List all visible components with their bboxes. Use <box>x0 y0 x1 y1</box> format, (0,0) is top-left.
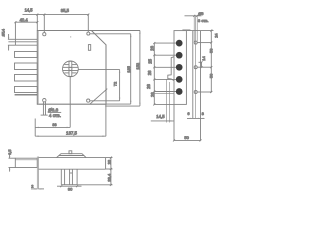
tiny mark above cylinder <box>70 36 71 37</box>
svg-text:26: 26 <box>147 70 152 75</box>
svg-text:88: 88 <box>52 123 56 127</box>
side bar hole 2 <box>194 66 197 69</box>
svg-text:14,5: 14,5 <box>25 7 34 12</box>
plate top step segment <box>182 29 190 31</box>
svg-text:26: 26 <box>150 92 155 97</box>
bolt (side view) <box>15 158 37 167</box>
body inner left edge line <box>38 31 40 105</box>
dim 72 <box>113 70 121 101</box>
dim 152 <box>135 31 141 107</box>
lower guard bolt slot <box>15 94 38 96</box>
extensions below plate <box>174 104 201 140</box>
plate bottom extension to chain <box>154 103 174 105</box>
extension line from top-right screw to 135 dim <box>90 33 131 35</box>
screw hole top-left <box>43 33 46 36</box>
screw hole top-right <box>87 32 90 35</box>
dim 14,5 / 85,5 (top) <box>23 7 90 32</box>
plate hole 1 <box>176 40 183 47</box>
svg-text:25: 25 <box>147 58 152 63</box>
svg-text:9,5: 9,5 <box>8 150 12 155</box>
dim 2 (faceplate thickness) <box>31 184 44 190</box>
svg-text:24: 24 <box>213 33 218 38</box>
plate hole 2 <box>176 52 183 59</box>
svg-text:50: 50 <box>208 48 213 53</box>
dim 6 / 8 (bar thickness) <box>187 111 205 119</box>
dim Ø6 3 отв. <box>185 11 209 42</box>
svg-text:72: 72 <box>113 81 118 86</box>
152 bottom extension <box>105 105 140 107</box>
cylinder centerline down (shared with 88 dim extension) <box>69 77 71 128</box>
side bar hole 3 <box>194 91 197 94</box>
plate hole 3 <box>176 64 183 71</box>
cylinder centerline right <box>78 68 119 70</box>
extension from bottom-right screw to 72 dim <box>90 100 120 102</box>
svg-text:14,5: 14,5 <box>156 114 165 119</box>
svg-text:26: 26 <box>149 45 154 50</box>
deadbolt 4 <box>15 87 38 93</box>
extra extension line near hole 5 <box>154 93 174 95</box>
svg-text:2: 2 <box>31 184 34 189</box>
svg-text:3 отв.: 3 отв. <box>198 18 209 23</box>
lower protrusion (bottom view) <box>61 169 77 185</box>
deadbolt 2 <box>15 63 38 70</box>
bar top extension to right chain <box>187 30 214 32</box>
svg-text:85,5: 85,5 <box>61 8 70 13</box>
svg-text:137,5: 137,5 <box>66 131 78 136</box>
svg-text:26: 26 <box>146 84 151 89</box>
latch bolt (top) <box>8 39 37 45</box>
dim 40,4 <box>14 17 38 39</box>
svg-text:6: 6 <box>187 111 190 116</box>
svg-text:14: 14 <box>201 55 206 60</box>
dim 50 (bottom of plate) <box>173 135 202 141</box>
keeper bump on plate left edge <box>168 57 174 81</box>
dim 137,5 <box>35 104 106 137</box>
plate hole 4 <box>176 76 183 83</box>
body bottom extension to 135 dim <box>106 103 131 105</box>
svg-text:152: 152 <box>135 62 140 69</box>
svg-text:8: 8 <box>202 111 205 116</box>
svg-text:30: 30 <box>68 187 73 192</box>
dim 14 (small bracket) <box>199 55 206 68</box>
dim Ø14 (latch) <box>1 28 16 50</box>
dim 30 <box>57 185 82 191</box>
side bar hole 1 <box>194 41 197 44</box>
deadbolt 3 <box>15 75 38 82</box>
svg-text:Ø14: Ø14 <box>1 28 6 36</box>
lock body outline (front view) <box>37 31 106 105</box>
dim 135 <box>126 34 132 104</box>
leaders from holes to chain <box>154 43 176 91</box>
svg-text:50: 50 <box>208 73 213 78</box>
svg-text:50: 50 <box>184 135 189 140</box>
svg-text:Ø6: Ø6 <box>198 11 204 16</box>
screw hole bottom-left <box>43 99 46 102</box>
body band (bottom view) <box>39 158 113 170</box>
label Ø6,6 4 отв. with double leader <box>41 102 62 118</box>
svg-text:Ø6,6: Ø6,6 <box>48 108 58 113</box>
screw hole bottom-right <box>87 99 90 102</box>
keeper tip extensions down to 14,5 dim <box>165 80 167 123</box>
dim 88 <box>35 119 70 137</box>
oblique leader from bottom-right screw <box>90 89 108 105</box>
dim 9,5 <box>8 150 15 172</box>
long top extension line to right chains <box>91 30 140 32</box>
right chain 24/50/50 <box>198 30 219 94</box>
deadbolt 1 <box>15 52 38 58</box>
dim 14,5 (to plate) <box>151 114 174 122</box>
plate hole 5 <box>176 88 183 95</box>
side bar (plate edge view) <box>193 16 201 119</box>
svg-text:40,4: 40,4 <box>20 17 29 22</box>
slot below top-right screw <box>88 45 90 51</box>
svg-text:4 отв.: 4 отв. <box>49 113 61 118</box>
cylinder boss bump (bottom view) <box>57 151 87 158</box>
svg-text:135: 135 <box>126 65 131 72</box>
hole spacing chain 26/26/25/26/26 <box>146 42 155 105</box>
strike plate outline <box>174 31 186 105</box>
cylinder (double-bit keyhole) <box>63 61 79 77</box>
faceplate edge-on <box>36 157 38 190</box>
dims 20 / 33,4 <box>77 157 112 186</box>
